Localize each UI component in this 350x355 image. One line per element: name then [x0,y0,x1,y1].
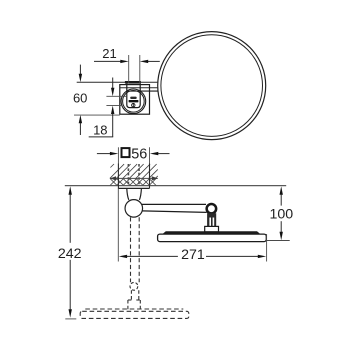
hidden position drop line left [130,217,132,282]
elbow bold bar [125,81,141,84]
screw detail [132,104,135,107]
dim 18 extension line top [106,95,127,97]
dim 21 line right with arrow [148,60,160,62]
end joint pivot [207,205,215,213]
dim 100 bottom arrow [280,221,282,232]
arm housing piece [127,84,140,108]
plate front face [118,187,149,189]
dim 271 extension left [117,188,119,261]
dim sq56 extension left [117,147,119,163]
hidden mirror slab [80,311,189,318]
dim 21 extension line left [128,55,130,84]
svg-text:56: 56 [131,146,147,162]
wall plate square [120,85,150,115]
dim 21 line left with arrow [94,60,121,62]
hidden fork foot [128,299,132,301]
dim sq56 right arrow [150,152,158,155]
mirror slab [158,234,267,242]
plate boss outer circle [121,89,146,114]
label square glyph [122,148,130,157]
end joint boss ring [206,204,216,214]
dim 21 extension line right [139,55,141,84]
hatch lower diagonals [110,178,156,185]
arm bottom line [142,211,206,213]
post left edge [127,189,129,200]
dim 271 extension right [266,234,268,262]
hatch upper diagonals [110,164,158,178]
dim 242 top arrow [69,186,72,194]
hidden joint circle [130,282,138,290]
svg-text:242: 242 [58,246,82,262]
hidden position drop line right [138,217,140,282]
svg-text:18: 18 [93,123,107,138]
dim 18 top arrow [112,78,114,89]
extension line bottom of plate [74,114,120,116]
dim 242 bottom extension [65,318,76,320]
fork stem [207,213,216,226]
arm top edge line [77,81,158,83]
hidden fixing dashes in wall [127,164,129,185]
hatch centerline [110,177,158,179]
dim 18 extension line bottom [106,105,121,107]
arm top line [142,203,206,205]
dim 18 leader underline [89,136,114,138]
mirror back cap [163,231,261,234]
dim sq56 extension right [149,147,151,163]
hatch left tip [110,176,116,180]
hatch lower back diagonals [110,178,156,185]
ball joint [125,200,143,218]
wall line [65,185,286,187]
detail bar 1 [130,97,137,99]
dim 100 bottom extension [267,240,290,242]
mirror disc outer circle [158,32,266,140]
fork foot [205,226,219,232]
svg-text:100: 100 [269,206,293,222]
hidden mirror cap [85,308,183,310]
hatch right tip [152,176,158,180]
mirror disc inner circle [161,35,263,137]
dim 271 line with arrows [119,255,127,258]
dim 60 bottom arrow [79,115,82,123]
dim 60 top arrow [79,65,81,74]
svg-text:271: 271 [181,247,205,263]
dim 100 top arrow [280,186,283,194]
arm bottom edge line [127,90,158,92]
dim 242 bottom arrow [69,260,71,310]
detail bar 2 [129,100,139,102]
svg-text:60: 60 [73,91,87,106]
dim sq56 left arrow [97,153,111,155]
dim 18 bottom arrow [111,106,114,114]
svg-text:21: 21 [102,46,116,61]
post right edge [139,189,141,200]
hatch stray tick [110,164,114,168]
plate boss inner circle [123,91,145,113]
plate bevel / arm upper line [120,87,158,89]
wall hatching [110,164,158,186]
hidden fork stem [130,290,132,300]
